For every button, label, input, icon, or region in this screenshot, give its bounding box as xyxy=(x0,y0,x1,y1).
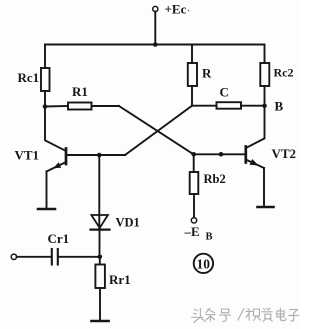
wire terminal to Cr1 xyxy=(17,256,51,258)
wire R1 right xyxy=(92,105,120,107)
wire Rb2 top lead xyxy=(193,154,195,172)
wire diagonal R junction to VT1 base xyxy=(125,106,192,155)
wire R junction to C xyxy=(192,105,217,107)
svg-text:Rr1: Rr1 xyxy=(109,272,131,287)
wire VD1 to node xyxy=(99,231,101,257)
svg-text:10: 10 xyxy=(197,257,211,272)
wire Rb2 bottom lead xyxy=(193,194,195,218)
wire left drop to Rc1 xyxy=(44,45,46,69)
VT2 emitter xyxy=(247,160,264,168)
svg-text:B: B xyxy=(206,232,213,243)
wire Rc1 to node A xyxy=(44,91,46,107)
wire +Ec drop xyxy=(154,12,156,45)
node VT2 base / Rb2 xyxy=(191,152,196,157)
wire top power rail xyxy=(45,44,265,46)
svg-text:+Ec: +Ec xyxy=(165,2,187,17)
node A xyxy=(43,104,48,109)
VT1 emitter xyxy=(47,163,66,172)
svg-text:Rc1: Rc1 xyxy=(18,70,40,85)
wire VT2 collector xyxy=(247,106,265,148)
node VT1 base / VD1 xyxy=(97,153,102,158)
wire Rc2 to node B xyxy=(264,86,266,106)
resistor Rc2 xyxy=(260,63,269,86)
transistor VT2 xyxy=(244,147,247,163)
wire node A down (VT1 collector) xyxy=(45,107,65,151)
wire C to node B xyxy=(241,105,265,107)
VT2 emitter arrow xyxy=(250,159,259,166)
svg-text:VT1: VT1 xyxy=(15,148,40,163)
wire R drop xyxy=(191,45,193,64)
wire Rr1 to ground xyxy=(99,288,101,320)
wire node to Rr1 xyxy=(99,257,101,265)
resistor Rr1 xyxy=(95,265,105,289)
ground VT1 xyxy=(38,208,55,211)
diode VD1 xyxy=(91,215,108,228)
resistor Rb2 xyxy=(190,172,199,194)
svg-text:Cr1: Cr1 xyxy=(48,231,70,246)
ground Rr1 xyxy=(92,320,109,323)
svg-text:VD1: VD1 xyxy=(116,216,140,230)
svg-text:R1: R1 xyxy=(72,84,88,99)
wire VT1 base node down to VD1 xyxy=(98,155,100,229)
wire Rc2 drop xyxy=(264,45,266,64)
resistor R xyxy=(188,63,197,86)
transistor VT1 xyxy=(65,149,68,165)
svg-text:R: R xyxy=(202,66,212,81)
terminal Cr1 input xyxy=(11,254,16,259)
svg-text:Rc2: Rc2 xyxy=(274,66,294,80)
node dot rail/+Ec xyxy=(153,42,158,47)
node VT2 base mid dot xyxy=(219,152,224,157)
wire VT2 base xyxy=(194,153,246,155)
svg-text:B: B xyxy=(275,99,284,114)
watermark 头条号 / 视觉电子 xyxy=(193,309,300,323)
figure number circle xyxy=(194,254,213,273)
wire R to junction xyxy=(191,86,193,106)
resistor R1 xyxy=(68,103,92,110)
VT1 emitter arrow xyxy=(53,162,61,168)
wire Cr1 to node xyxy=(59,256,100,258)
wire VT2 emitter down xyxy=(263,168,265,206)
svg-text:Rb2: Rb2 xyxy=(204,172,226,186)
capacitor C (box style) xyxy=(217,102,242,109)
svg-text:C: C xyxy=(220,85,229,100)
svg-text:VT2: VT2 xyxy=(272,146,297,161)
svg-text:–E: –E xyxy=(184,224,200,239)
+Ec terminal xyxy=(153,6,158,11)
wire VT1 base xyxy=(66,154,125,156)
ground VT2 xyxy=(258,206,274,209)
wire VT1 emitter down xyxy=(46,172,48,209)
wire diagonal R1 to VT2 base node xyxy=(119,106,194,154)
resistor Rc1 xyxy=(41,68,50,91)
capacitor Cr1 xyxy=(51,249,53,265)
wire node A to R1 xyxy=(45,105,68,108)
node Cr1/Rr1 xyxy=(98,254,103,259)
terminal -EB xyxy=(191,218,196,223)
node B xyxy=(262,103,267,108)
speck xyxy=(188,10,190,12)
